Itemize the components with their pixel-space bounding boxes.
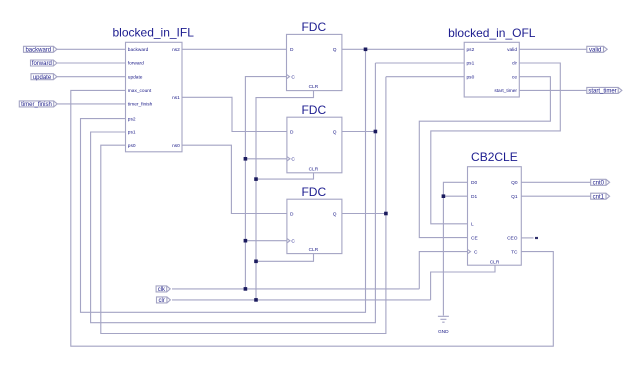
wire net ps1 feedback (FDC2 Q to OFL ps1 and IFL ps1) — [91, 63, 465, 323]
junction clk FDC2 C — [244, 157, 248, 161]
output port valid — [587, 46, 607, 53]
svg-text:GND: GND — [438, 329, 449, 335]
svg-text:Q: Q — [333, 211, 337, 217]
svg-text:C: C — [291, 157, 295, 163]
junction FDC1 Q — [364, 48, 368, 52]
svg-text:start_timer: start_timer — [494, 88, 517, 94]
wire Q1 to cnt1 — [521, 195, 590, 197]
svg-text:CLR: CLR — [309, 84, 319, 90]
svg-text:CB2CLE: CB2CLE — [471, 150, 518, 164]
junction clr at port line — [254, 298, 258, 302]
svg-text:FDC: FDC — [301, 103, 326, 117]
svg-text:C: C — [474, 249, 478, 255]
svg-text:Q0: Q0 — [511, 180, 518, 186]
wire timer_finish — [57, 103, 125, 105]
input port timer_finish — [19, 101, 57, 108]
svg-text:CE: CE — [471, 235, 478, 241]
svg-text:backward: backward — [128, 47, 149, 53]
svg-text:blocked_in_OFL: blocked_in_OFL — [448, 26, 536, 40]
wire ns0 to FDC3 D — [182, 145, 287, 213]
svg-text:ce: ce — [512, 75, 517, 80]
svg-text:FDC: FDC — [301, 20, 326, 34]
svg-text:CLR: CLR — [309, 247, 319, 253]
output port cnt0 — [591, 179, 610, 186]
svg-text:CLR: CLR — [490, 260, 500, 266]
block blocked_in_OFL — [448, 26, 536, 97]
svg-text:FDC: FDC — [301, 185, 326, 199]
junction clr FDC2 CLR — [254, 177, 258, 181]
flip-flop FDC1 — [287, 20, 342, 91]
wire backward — [57, 48, 126, 50]
svg-text:max_count: max_count — [128, 88, 152, 94]
svg-text:clk: clk — [158, 287, 166, 293]
output port cnt1 — [591, 193, 610, 200]
junction clr FDC3 CLR — [254, 260, 258, 264]
svg-text:ns2: ns2 — [172, 47, 180, 53]
junction clk at port line — [244, 287, 248, 291]
junction GND D1 — [442, 194, 446, 198]
wire ns2 to FDC1 D — [182, 48, 287, 50]
counter CB2CLE — [468, 150, 522, 266]
svg-text:ns1: ns1 — [172, 95, 180, 101]
junction clk FDC3 C — [244, 239, 248, 243]
unconnected marker on CEO — [535, 237, 538, 239]
svg-text:Q: Q — [333, 129, 337, 135]
input port forward — [31, 60, 57, 67]
input port update — [31, 74, 57, 81]
svg-text:CLR: CLR — [309, 166, 319, 172]
svg-text:ps2: ps2 — [467, 47, 475, 53]
svg-text:update: update — [33, 75, 52, 81]
svg-text:ps1: ps1 — [128, 130, 136, 136]
input port clk — [156, 286, 170, 293]
input port backward — [24, 46, 57, 53]
svg-text:D1: D1 — [471, 194, 477, 200]
wire update — [57, 76, 126, 78]
svg-text:timer_finish: timer_finish — [21, 102, 52, 108]
svg-text:ps0: ps0 — [467, 74, 475, 80]
ground GND — [438, 316, 449, 335]
svg-text:ps2: ps2 — [128, 116, 136, 122]
svg-text:D0: D0 — [471, 180, 477, 186]
svg-text:ps0: ps0 — [128, 143, 136, 149]
svg-text:D: D — [290, 211, 294, 217]
wire forward — [57, 62, 126, 64]
svg-text:update: update — [128, 74, 143, 80]
svg-text:TC: TC — [511, 249, 518, 255]
flip-flop FDC2 — [287, 103, 342, 173]
input port clr — [157, 297, 171, 304]
svg-text:D: D — [290, 47, 294, 53]
junction FDC3 Q — [384, 212, 388, 216]
wire net GND to D0 D1 — [443, 182, 467, 315]
wire ns1 to FDC2 D — [182, 97, 287, 131]
wire Q0 to cnt0 — [521, 181, 590, 183]
svg-text:ns0: ns0 — [172, 143, 180, 149]
wire net OFL ce to CB2CLE CE — [419, 77, 550, 238]
svg-text:C: C — [291, 239, 295, 245]
svg-text:cnt1: cnt1 — [593, 194, 605, 200]
svg-text:start_timer: start_timer — [588, 89, 616, 95]
svg-text:D: D — [290, 129, 294, 135]
flip-flop FDC3 — [287, 185, 342, 254]
svg-text:forward: forward — [128, 61, 144, 67]
wire net clk distribution — [172, 77, 468, 289]
wire net TC to max_count — [71, 90, 554, 346]
wire net ps2 feedback (FDC1 Q to OFL ps2 and IFL ps2) — [81, 49, 465, 312]
svg-text:timer_finish: timer_finish — [128, 102, 153, 108]
svg-text:C: C — [291, 75, 295, 81]
wire start_timer — [519, 89, 587, 91]
svg-text:cnt0: cnt0 — [593, 180, 605, 186]
svg-text:clr: clr — [512, 61, 517, 67]
wire net ps0 feedback (FDC3 Q to OFL ps0 and IFL ps0) — [101, 77, 464, 334]
svg-text:valid: valid — [589, 47, 601, 53]
output port start_timer — [587, 87, 622, 94]
svg-text:blocked_in_IFL: blocked_in_IFL — [113, 26, 195, 40]
wire net OFL clr to CB2CLE L — [431, 63, 561, 224]
svg-text:Q1: Q1 — [511, 194, 518, 200]
wire CEO stub (unconnected) — [521, 237, 533, 239]
junction FDC2 Q — [374, 130, 378, 134]
wire valid — [519, 48, 587, 50]
svg-text:backward: backward — [25, 47, 51, 53]
svg-text:L: L — [471, 222, 474, 228]
svg-text:valid: valid — [507, 47, 517, 53]
svg-text:Q: Q — [333, 47, 337, 53]
block blocked_in_IFL — [113, 26, 195, 152]
svg-text:CEO: CEO — [507, 236, 518, 242]
wire net clr distribution — [172, 91, 495, 300]
svg-text:clr: clr — [159, 298, 165, 304]
svg-text:forward: forward — [32, 61, 52, 67]
svg-text:ps1: ps1 — [467, 61, 475, 67]
